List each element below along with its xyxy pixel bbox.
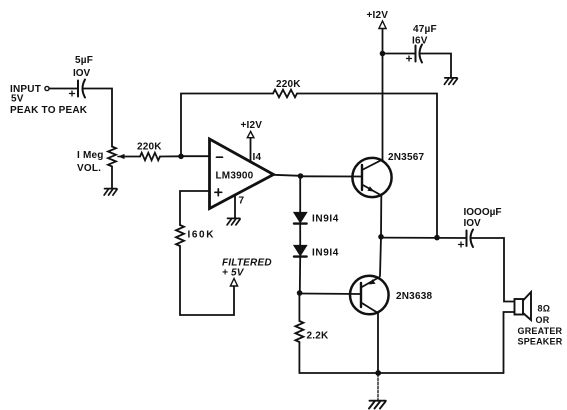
- wire plus input to R4: [180, 191, 210, 225]
- svg-text:I6V: I6V: [412, 36, 428, 47]
- svg-text:I Meg: I Meg: [77, 150, 104, 161]
- resistor R3 220K feedback: [273, 90, 297, 98]
- transistor Q2 base bar: [360, 283, 362, 307]
- capacitor C1 5uF: [70, 80, 86, 98]
- svg-text:+I2V: +I2V: [367, 10, 389, 21]
- label pin 7: [239, 196, 245, 207]
- transistor Q1 collector diagonal: [362, 160, 383, 171]
- op-amp +12V supply arrow: [247, 131, 254, 137]
- svg-text:5V: 5V: [11, 94, 24, 105]
- wire node E to C3: [381, 237, 466, 239]
- label +12V top: [367, 10, 389, 21]
- svg-text:GREATER: GREATER: [518, 326, 563, 336]
- svg-text:I4: I4: [253, 152, 262, 163]
- transistor Q2 emitter diagonal with arrow: [361, 277, 380, 288]
- resistor R2 220K series: [140, 153, 160, 161]
- svg-text:+I2V: +I2V: [241, 120, 263, 131]
- wire Q1 collector to +12V rail: [382, 29, 384, 160]
- wire pot wiper to R2: [125, 156, 140, 158]
- node F feedback tap dot: [434, 235, 440, 241]
- label R4 160K: [188, 230, 216, 241]
- capacitor C3 1000uF: [459, 230, 474, 248]
- svg-text:IN9I4: IN9I4: [312, 248, 339, 259]
- wire node G to ground: [377, 374, 379, 400]
- wire Q1 emitter down to node E: [380, 196, 382, 237]
- label FILTERED +5V: [222, 258, 272, 279]
- wire op-amp output to node B: [274, 175, 301, 176]
- capacitor C2 47uF: [407, 45, 423, 63]
- diode D2 1N914: [294, 246, 307, 257]
- svg-text:+ 5V: + 5V: [222, 268, 245, 279]
- node B output junction: [298, 173, 304, 179]
- wire R4 to filtered +5V arrow: [180, 246, 234, 315]
- label C2 47uF 16V: [412, 24, 437, 47]
- wire node C down to R5: [298, 293, 300, 321]
- label Q2 2N3638: [396, 291, 432, 302]
- svg-text:LM3900: LM3900: [216, 171, 254, 182]
- svg-text:IN9I4: IN9I4: [312, 214, 339, 225]
- label Q1 2N3567: [388, 152, 424, 163]
- wire D1 to D2: [299, 225, 301, 246]
- wire node D to C2: [383, 53, 416, 55]
- svg-text:47µF: 47µF: [413, 24, 437, 35]
- wire R5 to bottom rail: [298, 342, 300, 373]
- svg-text:220K: 220K: [276, 79, 301, 90]
- transistor Q2 collector diagonal: [361, 303, 378, 314]
- transistor Q2 2N3638 circle: [350, 276, 389, 315]
- op-amp U1 LM3900 triangle: [210, 139, 274, 209]
- wire +12V to pin 14: [250, 138, 252, 162]
- label D1 1N914: [312, 214, 339, 225]
- label INPUT 5V PEAK TO PEAK: [10, 84, 88, 116]
- label speaker 8 ohm OR GREATER SPEAKER: [518, 304, 563, 347]
- resistor R5 2.2K: [295, 321, 303, 342]
- ground at pin 7: [227, 218, 240, 225]
- +12V supply arrow top: [379, 21, 386, 29]
- ground at C2: [444, 78, 457, 85]
- label LM3900: [216, 171, 254, 182]
- svg-text:5µF: 5µF: [75, 55, 93, 66]
- label C3 1000uF 10V: [464, 207, 502, 229]
- node G rail junction: [375, 370, 381, 376]
- svg-text:2N3638: 2N3638: [396, 291, 432, 302]
- svg-text:IOV: IOV: [73, 68, 91, 79]
- label pin 14: [253, 152, 262, 163]
- label R3 220K: [276, 79, 301, 90]
- wire C2 to ground: [421, 54, 452, 78]
- input terminal: [45, 86, 49, 90]
- wire pot to ground: [111, 167, 113, 189]
- bottom rail wire: [299, 372, 503, 374]
- label C1 value 5uF 10V: [73, 55, 93, 79]
- op-amp minus sign: [217, 156, 223, 158]
- wire D2 to node C: [299, 258, 301, 294]
- svg-text:I60K: I60K: [188, 230, 216, 241]
- wire R2 to node A: [160, 155, 181, 157]
- wire Q2 collector to rail: [377, 314, 379, 374]
- wire node B to Q1 base: [301, 175, 363, 177]
- wire C3 to speaker top: [472, 238, 515, 302]
- wire node A to op-amp inverting input: [181, 155, 210, 157]
- node A junction: [178, 154, 184, 160]
- label D2 1N914: [312, 248, 339, 259]
- wire speaker bottom to rail: [504, 312, 515, 373]
- svg-text:OR: OR: [536, 315, 550, 325]
- svg-text:VOL.: VOL.: [77, 163, 101, 174]
- transistor Q1 emitter diagonal with arrow: [362, 185, 382, 196]
- ground bottom: [369, 401, 386, 409]
- transistor Q1 2N3567 circle: [352, 158, 391, 197]
- svg-text:8Ω: 8Ω: [538, 304, 551, 314]
- speaker LS1: [515, 292, 532, 320]
- svg-text:7: 7: [239, 196, 245, 207]
- wire feedback right segment to output node: [297, 94, 437, 236]
- svg-text:2.2K: 2.2K: [307, 331, 330, 342]
- svg-text:220K: 220K: [137, 142, 162, 153]
- svg-text:IOOOµF: IOOOµF: [464, 207, 502, 218]
- pin 7 wire: [234, 195, 236, 218]
- label R1 1 Meg VOL.: [77, 150, 104, 174]
- wire Q2 emitter up to node E: [380, 237, 381, 276]
- op-amp +12V supply label: [241, 120, 263, 131]
- svg-text:2N3567: 2N3567: [388, 152, 424, 163]
- label R2 220K: [137, 142, 162, 153]
- svg-text:IOV: IOV: [464, 218, 482, 229]
- node E output junction: [378, 234, 384, 240]
- diode D1 1N914: [294, 213, 307, 224]
- resistor R4 160K: [176, 225, 184, 246]
- node D supply junction: [380, 51, 386, 57]
- transistor Q1 base bar: [361, 165, 363, 190]
- wire C1 to pot: [84, 89, 113, 147]
- wire node B down to D1: [299, 176, 301, 213]
- node C junction: [297, 290, 303, 296]
- wire node C to Q2 base: [300, 293, 361, 296]
- svg-text:PEAK TO PEAK: PEAK TO PEAK: [10, 105, 88, 116]
- potentiometer R1 1 Meg: [108, 147, 125, 167]
- svg-text:SPEAKER: SPEAKER: [518, 337, 563, 347]
- wire node A up to feedback rail: [181, 94, 273, 157]
- filtered +5V arrow: [230, 279, 237, 287]
- op-amp plus sign: [215, 189, 222, 196]
- wire input to C1: [49, 88, 77, 90]
- ground under pot: [104, 189, 117, 196]
- label R5 2.2K: [307, 331, 330, 342]
